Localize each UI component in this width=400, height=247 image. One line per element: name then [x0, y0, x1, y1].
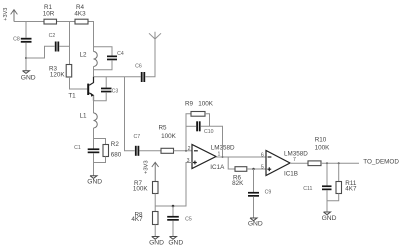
wire: coupling drop from feed line to C7: [125, 77, 135, 151]
wire: C2 right lead to R3 net: [59, 45, 69, 47]
junction R11 tap: [338, 162, 340, 164]
svg-text:680: 680: [111, 152, 122, 159]
resistor R7: [153, 182, 159, 194]
svg-text:C10: C10: [204, 129, 214, 135]
svg-text:C4: C4: [117, 51, 124, 57]
svg-text:TO_DEMOD: TO_DEMOD: [363, 159, 399, 166]
wire: C4 top branch: [94, 47, 113, 56]
wire: R10 to TO_DEMOD: [321, 162, 359, 164]
ground (output filter): [322, 212, 337, 222]
wire: C1 down to GND: [93, 153, 95, 176]
capacitor C8: [21, 38, 32, 43]
power +3V3 arrow (middle): [152, 162, 159, 181]
resistor R6: [235, 167, 247, 172]
wire: to GND: [326, 201, 328, 212]
svg-text:GND: GND: [87, 179, 102, 186]
junction C9 tap: [252, 168, 254, 170]
op-amp IC1A: [192, 145, 216, 169]
wire: C2 left lead to C8 net: [26, 46, 55, 58]
svg-text:100K: 100K: [315, 145, 331, 152]
wire: R5 to IC1A inverting input: [174, 150, 193, 152]
capacitor C4: [107, 56, 117, 61]
resistor R10: [308, 161, 321, 166]
resistor R9: [191, 112, 205, 117]
svg-text:GND: GND: [168, 239, 183, 246]
wire: down to C11: [326, 163, 328, 185]
power +3V3 arrow (top left): [11, 10, 18, 22]
svg-text:C3: C3: [112, 89, 119, 95]
ground (below C5): [168, 237, 183, 247]
svg-text:120K: 120K: [50, 72, 66, 79]
svg-text:GND: GND: [248, 221, 263, 228]
wire: R2 top branch: [94, 139, 106, 145]
svg-text:C7: C7: [133, 134, 140, 140]
svg-text:100K: 100K: [133, 185, 149, 192]
svg-text:4K7: 4K7: [131, 216, 143, 223]
svg-text:3: 3: [187, 158, 190, 164]
wire: L2 bottom to collector node: [93, 67, 95, 77]
svg-text:GND: GND: [149, 239, 164, 246]
resistor R1: [44, 19, 57, 24]
junction C5 tap: [172, 205, 175, 208]
wire: C9 to GND: [253, 196, 255, 218]
wire: R2 bottom branch: [94, 157, 106, 163]
ground (below R8): [149, 237, 164, 247]
junction feedback/output: [222, 156, 224, 158]
wire: junction down to C9: [253, 169, 255, 192]
resistor R5: [161, 148, 174, 153]
svg-text:+3V3: +3V3: [144, 160, 150, 174]
svg-text:C8: C8: [13, 37, 20, 43]
wire: C11/R11 bottoms joined: [327, 190, 339, 201]
capacitor C1: [88, 148, 100, 153]
svg-text:6: 6: [261, 153, 264, 159]
wire: IC1A output to IC1B inverting input: [216, 156, 266, 158]
wire: feedback left leg up: [186, 114, 191, 151]
antenna E1: [149, 32, 161, 39]
wire: rail R1 to R4: [57, 21, 76, 23]
wire: rail R4 to corner, down to L2: [88, 22, 94, 52]
wire: collector node to C6 (antenna feed): [94, 76, 141, 78]
svg-text:82K: 82K: [232, 180, 244, 187]
svg-text:+3V3: +3V3: [3, 8, 9, 21]
svg-text:R9: R9: [185, 101, 194, 108]
junction C11 tap: [326, 162, 328, 164]
svg-text:C11: C11: [303, 186, 312, 192]
resistor R4: [75, 19, 88, 24]
svg-text:4K3: 4K3: [74, 10, 86, 17]
svg-text:10R: 10R: [43, 10, 55, 17]
svg-text:R5: R5: [158, 125, 167, 132]
svg-text:GND: GND: [21, 75, 36, 82]
wire: rail down to R3: [69, 22, 71, 65]
capacitor C11: [322, 185, 332, 190]
svg-text:IC1A: IC1A: [210, 164, 225, 171]
wire: +3V3 rail from arrow to R1: [14, 21, 44, 23]
wire: C10 left leg: [186, 125, 196, 127]
transistor T1: [87, 77, 94, 101]
svg-text:C2: C2: [49, 33, 56, 39]
resistor R8: [153, 212, 159, 225]
svg-text:IC1B: IC1B: [284, 170, 298, 177]
svg-text:C6: C6: [135, 64, 142, 70]
svg-text:T1: T1: [68, 93, 76, 100]
svg-text:GND: GND: [322, 215, 337, 222]
wire: C10 right to feedback right leg down to output: [201, 126, 223, 157]
svg-text:C5: C5: [185, 217, 192, 223]
junction C8/C2: [25, 57, 27, 59]
wire: C4 bottom branch: [94, 60, 113, 69]
inductor L1: [94, 113, 98, 128]
svg-text:100K: 100K: [161, 133, 177, 140]
svg-text:4K7: 4K7: [345, 185, 357, 192]
capacitor C2: [55, 42, 59, 52]
wire: C6 to antenna: [145, 39, 155, 77]
wire: R8 to GND: [154, 225, 156, 237]
wire: output drop to R6: [228, 157, 235, 169]
wire: C8 down to GND: [25, 43, 27, 71]
wire: emitter down to L1: [93, 96, 95, 114]
svg-text:L1: L1: [79, 113, 87, 120]
wire: C5 to GND: [172, 221, 174, 237]
svg-text:LM358D: LM358D: [284, 150, 308, 157]
resistor R11: [336, 182, 342, 194]
resistor R3: [66, 65, 72, 78]
svg-text:C9: C9: [265, 190, 272, 196]
svg-text:100K: 100K: [198, 101, 214, 108]
wire: R7 to R8: [154, 194, 156, 212]
svg-text:C1: C1: [74, 145, 81, 151]
wire: R6 to IC1B + input: [247, 168, 266, 170]
wire: down to R11: [338, 163, 340, 181]
capacitor C7: [135, 146, 139, 156]
wire: IC1B output to R10: [290, 162, 308, 164]
wire: R9 right to drop: [205, 114, 210, 127]
wire: divider node to C5: [172, 206, 174, 216]
capacitor C5: [167, 216, 179, 221]
svg-text:L2: L2: [79, 52, 87, 59]
wire: R3 down and right to T1 base: [70, 77, 88, 89]
wire: L1 bottom to C1/R2 node: [93, 128, 95, 149]
capacitor C3: [101, 88, 112, 93]
svg-text:7: 7: [293, 157, 296, 163]
svg-text:5: 5: [261, 165, 264, 171]
junction feedback/inverting input: [185, 150, 187, 152]
svg-text:2: 2: [188, 146, 191, 152]
wire: C3 bottom to emitter: [94, 92, 107, 101]
ground (below C1): [87, 176, 102, 186]
capacitor C9: [248, 192, 259, 197]
svg-text:R10: R10: [315, 137, 327, 144]
inductor L2: [94, 52, 98, 67]
ground (below C9): [248, 218, 263, 228]
capacitor C10: [196, 121, 200, 131]
svg-text:R2: R2: [111, 141, 120, 148]
wire: rail junction down to C8: [25, 22, 27, 38]
resistor R2: [103, 145, 109, 157]
wire: IC1A + input to bias divider: [155, 163, 192, 207]
op-amp IC1B: [266, 151, 290, 176]
ground (below C8): [21, 71, 36, 82]
wire: C7 to R5: [140, 150, 162, 152]
wire: C3 top lead from feed line: [105, 77, 107, 88]
capacitor C6: [141, 72, 145, 82]
